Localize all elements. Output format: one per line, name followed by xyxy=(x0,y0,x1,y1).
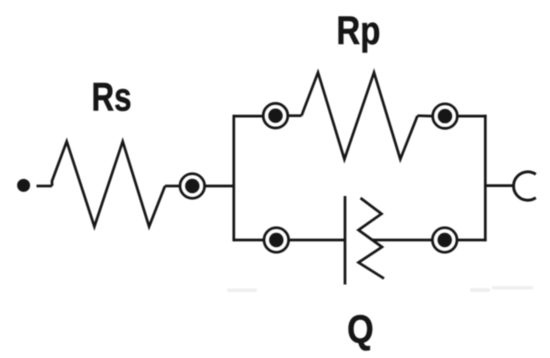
wire xyxy=(205,185,235,188)
svg-text:Rp: Rp xyxy=(336,9,380,53)
wire xyxy=(234,115,263,118)
wire right vertical xyxy=(484,115,487,242)
wire xyxy=(288,114,302,117)
node D xyxy=(264,228,289,253)
terminal (output open circle) xyxy=(514,172,536,200)
terminal dot (input) xyxy=(17,179,30,192)
wire xyxy=(418,114,433,117)
node A xyxy=(180,174,205,199)
CPE Q plate xyxy=(344,196,347,285)
wire output stub xyxy=(485,184,514,187)
wire xyxy=(289,239,345,242)
node C xyxy=(433,104,458,129)
resistor R2 Rp xyxy=(302,73,418,160)
node B xyxy=(263,103,288,128)
wire xyxy=(457,239,487,242)
svg-text:Q: Q xyxy=(347,308,374,352)
wire xyxy=(457,115,486,118)
wire left vertical xyxy=(232,115,235,242)
wire xyxy=(373,239,433,242)
wire xyxy=(234,239,264,242)
wire xyxy=(37,185,53,188)
node E xyxy=(432,228,457,253)
CPE Q zigzag xyxy=(359,198,385,279)
faint smudge left xyxy=(227,286,533,292)
wire xyxy=(165,185,181,188)
svg-text:Rs: Rs xyxy=(92,76,132,120)
resistor R1 Rs xyxy=(52,142,165,227)
